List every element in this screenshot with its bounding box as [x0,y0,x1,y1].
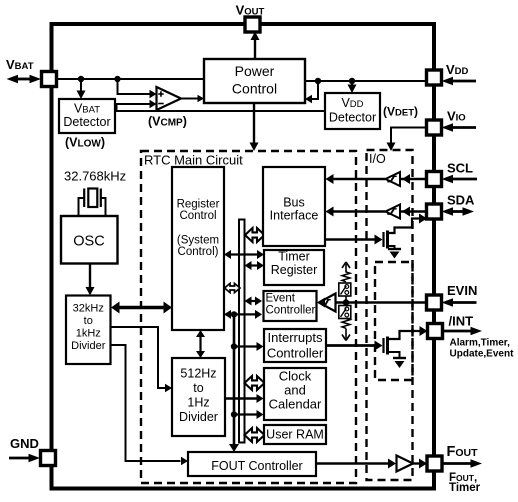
svg-text:(VCMP): (VCMP) [148,115,187,129]
svg-text:512Hz: 512Hz [180,367,216,381]
svg-text:Divider: Divider [71,340,106,352]
svg-text:Clock: Clock [279,369,312,384]
svg-text:Interrupts: Interrupts [268,330,323,345]
svg-text:Divider: Divider [179,410,218,424]
svg-text:Alarm,Timer,: Alarm,Timer, [450,338,511,349]
svg-text:32kHz: 32kHz [73,303,104,315]
svg-text:Controller: Controller [266,305,316,317]
svg-text:Bus: Bus [283,196,305,210]
svg-text:Event: Event [266,293,296,305]
svg-text:Update,Event: Update,Event [450,349,515,360]
svg-text:Calendar: Calendar [269,397,322,412]
svg-text:Control): Control) [178,246,219,258]
svg-text:(VLOW): (VLOW) [65,136,105,150]
svg-text:(System: (System [177,235,219,247]
svg-text:Timer: Timer [449,482,481,494]
svg-text:to: to [193,381,203,395]
svg-text:Register: Register [177,199,220,211]
svg-text:Register: Register [271,263,318,277]
svg-text:OSC: OSC [73,234,104,250]
svg-text:Control: Control [232,81,277,97]
svg-text:1kHz: 1kHz [76,328,101,340]
svg-text:Power: Power [235,63,275,79]
svg-text:to: to [84,315,93,327]
svg-text:GND: GND [10,436,39,451]
svg-text:VDD: VDD [341,96,363,110]
svg-text:FOUT Controller: FOUT Controller [211,459,302,473]
svg-text:1Hz: 1Hz [187,396,209,410]
svg-text:EVIN: EVIN [447,283,477,298]
svg-text:RTC Main Circuit: RTC Main Circuit [144,153,243,168]
svg-text:/INT: /INT [449,314,474,329]
svg-text:I/O: I/O [369,152,386,166]
svg-text:FOUT: FOUT [447,444,479,460]
svg-text:Timer: Timer [278,250,309,264]
svg-text:Control: Control [179,210,216,222]
svg-text:Detector: Detector [329,111,376,125]
svg-text:VBAT: VBAT [74,102,100,116]
svg-text:(VDET): (VDET) [383,105,418,119]
svg-text:User RAM: User RAM [266,428,324,442]
svg-text:SDA: SDA [447,193,475,208]
svg-text:SCL: SCL [447,161,473,176]
svg-text:Detector: Detector [63,115,110,129]
svg-text:Interface: Interface [270,209,319,223]
svg-text:32.768kHz: 32.768kHz [64,169,126,184]
svg-text:and: and [284,383,306,398]
svg-text:Controller: Controller [267,346,324,361]
